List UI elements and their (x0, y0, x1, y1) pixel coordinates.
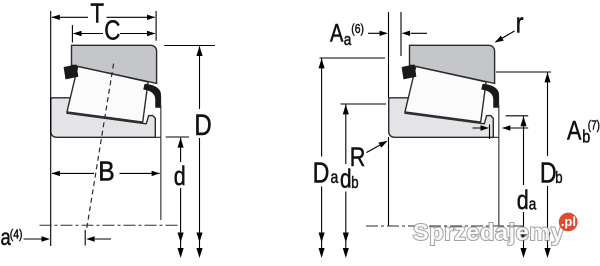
svg-text:.pl: .pl (561, 214, 576, 229)
svg-text:d: d (340, 164, 352, 193)
svg-text:B: B (98, 155, 114, 187)
svg-text:R: R (350, 143, 366, 173)
svg-text:Sprzedajemy: Sprzedajemy (413, 219, 565, 245)
svg-text:C: C (104, 15, 120, 46)
svg-text:(4): (4) (10, 227, 23, 241)
svg-text:a: a (529, 195, 537, 214)
svg-text:b: b (351, 173, 358, 192)
svg-text:T: T (90, 0, 104, 29)
svg-text:D: D (194, 107, 211, 141)
svg-text:(6): (6) (351, 22, 364, 36)
svg-text:(7): (7) (588, 119, 600, 132)
svg-text:a: a (331, 169, 339, 188)
svg-text:A: A (330, 20, 344, 48)
svg-text:A: A (567, 116, 582, 146)
svg-text:d: d (517, 186, 529, 216)
svg-text:d: d (174, 162, 186, 192)
svg-text:D: D (540, 156, 557, 189)
svg-text:D: D (313, 156, 330, 189)
svg-text:b: b (555, 169, 562, 188)
svg-text:r: r (516, 6, 524, 39)
